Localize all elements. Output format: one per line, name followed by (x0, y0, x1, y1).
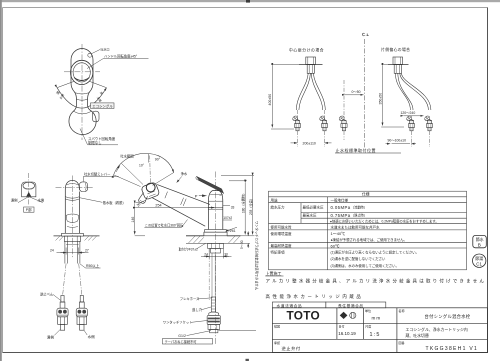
title block tabs (272, 302, 385, 308)
svg-text:TOTO: TOTO (287, 309, 321, 323)
svg-text:用途: 用途 (271, 197, 279, 202)
label スパウト回転角度 制限なし (80, 129, 118, 145)
svg-text:吐水範囲: 吐水範囲 (120, 153, 134, 158)
svg-text:G1/2: G1/2 (178, 334, 186, 338)
svg-text:1:5: 1:5 (370, 332, 381, 338)
P leader legs (18, 197, 43, 203)
svg-text:取付穴Φ37±2: 取付穴Φ37±2 (179, 246, 198, 251)
svg-text:エコシングル: エコシングル (92, 103, 113, 108)
svg-text:湯側: 湯側 (47, 334, 55, 339)
side knob (top view) (92, 111, 99, 122)
dim 400±50 (271, 65, 299, 130)
front dim 24 / 27 (57, 248, 89, 255)
label 吐水切替えレバー (84, 171, 119, 181)
front switch knob (79, 182, 87, 192)
svg-text:承認: 承認 (274, 340, 280, 345)
caption 止水栓標準取付位置 (335, 147, 401, 153)
svg-text:湯側: 湯側 (11, 198, 18, 203)
svg-text:200±110: 200±110 (303, 142, 316, 146)
dim 200±110 (291, 142, 332, 144)
right diagram faucet body (388, 57, 409, 73)
centerline C.L (362, 32, 370, 148)
scan tick marks (246, 0, 250, 3)
label R50以上 (80, 263, 101, 268)
svg-text:33: 33 (231, 205, 235, 209)
svg-text:0.75MPa: 0.75MPa (331, 213, 351, 218)
spec table text (271, 192, 439, 268)
svg-text:10°: 10° (139, 163, 145, 167)
note 上置施工 (265, 270, 486, 284)
right diagram stop valve 2 (424, 115, 433, 131)
scan edge top (0, 0, 500, 2)
centerline vertical (81, 44, 83, 140)
label box テーパおねじ接続不可 (162, 339, 212, 344)
front body dome (65, 180, 79, 189)
note この位置で吐水口360°回転 (144, 220, 187, 228)
base flange side (204, 230, 227, 236)
svg-text:最高耐熱温度: 最高耐熱温度 (271, 243, 292, 248)
locknut below counter (208, 243, 224, 253)
stamp 節湯C1 (473, 254, 486, 267)
faucet body outline (top view) (69, 49, 96, 135)
svg-text:蔵、吐水切替: 蔵、吐水切替 (406, 333, 429, 338)
svg-text:(1)湯圧が水圧より高くならないように設定してください。: (1)湯圧が水圧より高くならないように設定してください。 (331, 250, 420, 255)
svg-text:アルカリ整水器分岐金具、アルカリ洗浄水分岐金具は取り付けでき: アルカリ整水器分岐金具、アルカリ洗浄水分岐金具は取り付けできません (266, 277, 487, 284)
front hose centerlines (63, 264, 82, 295)
right diagram supply pipes (395, 73, 431, 110)
svg-text:233（全高）: 233（全高） (248, 197, 253, 215)
svg-text:単位: 単位 (365, 308, 371, 313)
svg-text:仕様: 仕様 (362, 192, 370, 197)
dim 5~30 (247, 231, 249, 248)
svg-text:逆止弁付: 逆止弁付 (282, 345, 301, 352)
svg-text:120～240: 120～240 (401, 111, 416, 115)
front counter line + hatch (54, 236, 100, 241)
svg-text:吐水口: 吐水口 (101, 47, 110, 52)
front view centerlines (71, 176, 73, 259)
left diagram faucet body (299, 57, 323, 73)
handle lever (196, 176, 224, 195)
side counter + hatch (186, 236, 241, 244)
svg-text:止水栓標準取付位置: 止水栓標準取付位置 (336, 147, 377, 153)
svg-text:長住基適合品: 長住基適合品 (338, 303, 364, 308)
swivel arc 吐水範囲 (114, 153, 174, 186)
handle oval (top view) (71, 60, 93, 84)
left diagram stop valve (hot) (292, 115, 301, 131)
svg-text:浄水: 浄水 (181, 171, 188, 176)
svg-text:使用環境温度: 使用環境温度 (271, 231, 292, 236)
svg-text:16.10.19: 16.10.19 (338, 331, 356, 336)
svg-text:散水板（着脱）: 散水板（着脱） (103, 200, 126, 205)
svg-text:●凍結が予想される地域では、ご使用できません。: ●凍結が予想される地域では、ご使用できません。 (331, 237, 408, 242)
svg-text:24: 24 (50, 249, 54, 253)
P cup body (22, 182, 36, 197)
right diagram stop valve 1 (406, 115, 415, 131)
svg-text:逆止べん: 逆止べん (40, 292, 54, 297)
svg-text:mm: mm (372, 316, 382, 321)
svg-text:(2)湯水を逆に配管しないでください: (2)湯水を逆に配管しないでください (331, 256, 387, 261)
middle purified-water valve with 0~50 dim (338, 80, 363, 140)
svg-text:特記事項: 特記事項 (271, 250, 285, 255)
svg-text:180（全開時）: 180（全開時） (240, 192, 245, 213)
dim 254 (136, 207, 214, 209)
svg-text:制限なし: 制限なし (88, 140, 102, 145)
svg-text:尺度: 尺度 (365, 324, 371, 329)
body cap dome (208, 191, 222, 202)
front supply pipes (65, 241, 80, 263)
svg-text:一般地仕様: 一般地仕様 (331, 197, 349, 202)
svg-text:上置施工: 上置施工 (266, 270, 282, 276)
svg-text:0.05MPa: 0.05MPa (331, 205, 351, 210)
svg-text:（静止時）: （静止時） (351, 213, 367, 218)
svg-text:5～30: 5～30 (240, 240, 244, 249)
svg-text:B: B (478, 243, 481, 248)
svg-text:台付シングル混合水栓: 台付シングル混合水栓 (425, 313, 471, 320)
front body cylinder (65, 190, 79, 234)
svg-text:図番: 図番 (399, 340, 405, 345)
svg-text:90～100±10: 90～100±10 (388, 138, 407, 142)
head centerline from fan (149, 156, 152, 184)
svg-text:検図: 検図 (274, 324, 280, 329)
svg-text:吐水切替えレバー: 吐水切替えレバー (84, 171, 110, 176)
head nozzle (139, 192, 148, 203)
connector stack (207, 297, 220, 333)
right height dims (221, 175, 255, 243)
svg-text:350±50: 350±50 (378, 93, 382, 105)
hose (212, 253, 215, 297)
svg-text:P: P (195, 193, 198, 198)
svg-text:ワンタッチソケット: ワンタッチソケット (163, 320, 193, 325)
svg-text:30: 30 (224, 252, 228, 256)
svg-text:使用可能水質: 使用可能水質 (271, 224, 292, 229)
below-deck dims 24 / 30 (201, 249, 232, 259)
left diagram supply pipes (296, 73, 325, 110)
side centerline (215, 172, 217, 346)
svg-text:107±2: 107±2 (223, 216, 232, 220)
dim 350±50 (381, 65, 404, 128)
projection symbol (340, 312, 356, 318)
svg-text:水側: 水側 (38, 197, 45, 202)
svg-text:片側偏心の場合: 片側偏心の場合 (381, 47, 410, 52)
svg-text:（流動時）: （流動時） (351, 205, 367, 210)
svg-text:水道水または飲用可能な井戸水: 水道水または飲用可能な井戸水 (331, 224, 380, 229)
svg-text:24: 24 (204, 252, 208, 256)
label ハンドル回転角度 (87, 53, 149, 68)
svg-text:●快適にお使いいただくためには、0.2MPa程度の水圧をおす: ●快適にお使いいただくためには、0.2MPa程度の水圧をおすすめします。 (330, 218, 439, 223)
svg-text:ワンタッチカプラ式分岐金具は使用できません: ワンタッチカプラ式分岐金具は使用できません (255, 221, 260, 291)
svg-text:水側: 水側 (88, 334, 96, 339)
svg-text:中心振分けの場合: 中心振分けの場合 (289, 48, 324, 53)
svg-text:C1: C1 (476, 262, 482, 267)
title block (272, 308, 487, 353)
leader to one-touch coupler note (219, 329, 257, 331)
svg-text:この位置で吐水口360°回転: この位置で吐水口360°回転 (145, 222, 184, 227)
label box エコシングル (91, 103, 115, 109)
svg-text:60℃: 60℃ (331, 243, 340, 248)
svg-text:エコシングル、浄水カートリッジ内: エコシングル、浄水カートリッジ内 (406, 327, 468, 332)
svg-text:254: 254 (155, 203, 161, 207)
svg-text:フレキホース: フレキホース (180, 296, 200, 301)
P indicator triangle (26, 192, 31, 197)
P centerline (28, 173, 30, 205)
svg-text:1～40℃: 1～40℃ (331, 231, 346, 236)
svg-text:TKGG38EH1 V1: TKGG38EH1 V1 (426, 346, 479, 352)
centerline horizontal (64, 71, 100, 73)
svg-text:0～50: 0～50 (352, 90, 361, 94)
left diagram stop valve (cold) (319, 115, 328, 131)
svg-text:(3)湯側は、水のみ使用してご使用ください。: (3)湯側は、水のみ使用してご使用ください。 (331, 263, 399, 268)
svg-text:27: 27 (85, 249, 89, 253)
svg-text:テーパおねじ接続不可: テーパおねじ接続不可 (165, 339, 198, 344)
svg-text:高性能浄水カートリッジ内蔵品: 高性能浄水カートリッジ内蔵品 (266, 293, 364, 300)
check valve hot (57, 296, 68, 331)
spout tip circle + label (88, 53, 92, 57)
svg-text:R50以上: R50以上 (86, 263, 100, 268)
svg-text:日付: 日付 (339, 324, 345, 329)
svg-text:ハンドル回転角度±45°: ハンドル回転角度±45° (104, 53, 138, 58)
svg-text:146: 146 (131, 217, 135, 223)
dim 146 (135, 203, 145, 236)
label 散水板(着脱) (80, 198, 126, 205)
svg-text:P部: P部 (26, 207, 32, 212)
check valve cold (76, 296, 87, 331)
front base flange (62, 233, 84, 241)
svg-text:名称: 名称 (399, 308, 405, 313)
svg-text:節湯: 節湯 (475, 255, 483, 261)
svg-text:Ｃ.L: Ｃ.L (362, 32, 370, 37)
svg-text:400±50: 400±50 (268, 94, 272, 106)
svg-text:節水: 節水 (476, 236, 484, 242)
body cylinder (208, 201, 222, 229)
second hose centerline (hidden) (208, 248, 210, 300)
svg-text:最低必要水圧: 最低必要水圧 (303, 205, 324, 210)
stamp 節水B (473, 235, 487, 247)
scan edge left (0, 0, 2, 361)
svg-text:水道法適合品: 水道法適合品 (277, 303, 303, 308)
spec table 仕様 (269, 191, 467, 270)
spray head housing (141, 182, 160, 200)
svg-text:90°: 90° (155, 158, 161, 162)
handle swing fan (57, 81, 107, 108)
svg-text:給水圧力: 給水圧力 (271, 205, 285, 210)
svg-text:最高水圧: 最高水圧 (303, 213, 317, 218)
spout tube (152, 185, 210, 227)
